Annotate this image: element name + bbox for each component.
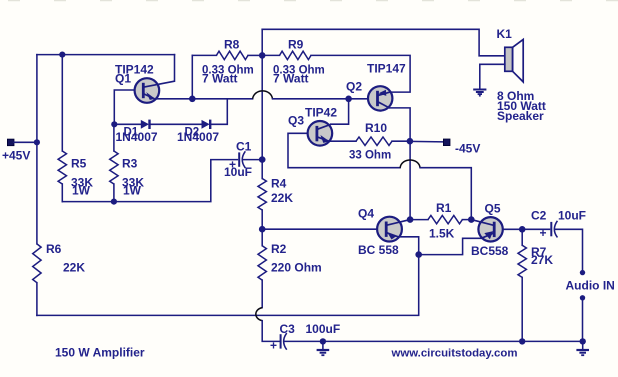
diode D2	[151, 99, 228, 129]
svg-text:R2: R2	[271, 242, 287, 256]
wire R2 down to hop	[261, 280, 263, 308]
node +45V rail	[34, 139, 40, 145]
wire R4 to R2	[261, 210, 263, 246]
svg-text:10uF: 10uF	[224, 165, 252, 179]
transistor Q5 BC558	[471, 217, 503, 241]
wire Q1 emitter line to Q2 base	[154, 98, 253, 100]
svg-text:BC 558: BC 558	[358, 243, 399, 257]
node R1 right / Q5 collector	[468, 216, 475, 223]
node R5 top	[59, 52, 65, 58]
hop over feedback rail	[256, 308, 262, 321]
node audio ground	[580, 338, 586, 344]
svg-text:Audio IN: Audio IN	[566, 279, 615, 293]
svg-text:+45V: +45V	[2, 149, 30, 163]
node Q4 base tee	[259, 226, 266, 233]
transistor Q4 BC558	[377, 217, 410, 242]
wire center rail top	[261, 29, 263, 55]
svg-text:Q2: Q2	[346, 80, 362, 94]
transistor Q3 TIP42	[308, 121, 333, 146]
wire Q4 base from center rail	[262, 228, 377, 230]
ground at audio in	[576, 341, 589, 355]
wire to R1 right node	[420, 168, 471, 220]
wire Q2 collector to R10 node	[390, 108, 411, 220]
svg-text:1N4007: 1N4007	[177, 130, 219, 144]
svg-text:1W: 1W	[123, 184, 142, 198]
svg-text:R1: R1	[436, 201, 452, 215]
wire Q5 base to C2 node	[503, 228, 522, 230]
node R1 left	[407, 216, 414, 223]
capacitor C2	[522, 221, 582, 270]
resistor R1	[410, 219, 428, 221]
wire left rail below R6	[36, 283, 38, 316]
svg-text:7 Watt: 7 Watt	[273, 72, 309, 86]
svg-text:+: +	[270, 339, 277, 353]
svg-text:www.circuitstoday.com: www.circuitstoday.com	[391, 348, 518, 360]
svg-text:Q5: Q5	[485, 202, 501, 216]
wire Q2 base node to Q3 collector	[331, 99, 349, 124]
wire left rail vertical	[36, 55, 38, 244]
wire top output rail	[262, 29, 505, 56]
diode D1	[114, 120, 149, 129]
node Q2 base	[345, 96, 352, 103]
svg-text:1N4007: 1N4007	[116, 130, 158, 144]
node Q5 base / C2 / R7	[519, 226, 526, 233]
wire bottom line C3 to audio ground	[284, 340, 583, 342]
svg-text:C3: C3	[280, 322, 296, 336]
transistor Q1 TIP142	[135, 78, 175, 103]
svg-text:+: +	[540, 226, 547, 240]
resistor R7	[521, 229, 523, 245]
wire hop to C3 corner	[262, 321, 280, 342]
resistor R3	[113, 124, 115, 151]
node R3 bottom	[111, 199, 117, 205]
node -45V terminal	[443, 139, 450, 146]
svg-text:R4: R4	[271, 177, 287, 191]
wire R5/R3 bottom to C1	[62, 160, 237, 202]
wire R8 feed vertical	[191, 55, 193, 98]
svg-text:Q3: Q3	[288, 114, 304, 128]
resistor R8	[216, 51, 248, 59]
capacitor C3	[281, 334, 287, 349]
svg-text:R3: R3	[122, 157, 138, 171]
hop over center rail	[253, 91, 273, 99]
wire center rail (output node down to C1 node)	[261, 55, 263, 178]
resistor R4	[258, 179, 266, 211]
wire R10 node to -45V	[410, 140, 444, 143]
resistor R6	[33, 244, 41, 283]
svg-text:Q4: Q4	[358, 207, 374, 221]
resistor R10	[329, 140, 356, 142]
svg-text:R8: R8	[224, 38, 240, 52]
capacitor C1	[239, 152, 262, 167]
svg-text:220 Ohm: 220 Ohm	[271, 261, 322, 275]
resistor R5	[61, 55, 63, 151]
node Q4 emitter	[415, 251, 422, 258]
svg-text:Speaker: Speaker	[497, 109, 544, 123]
node audio in upper terminal	[580, 270, 585, 275]
resistor R2	[258, 246, 266, 280]
node R10 right	[407, 138, 414, 145]
svg-text:22K: 22K	[271, 191, 293, 205]
svg-text:C1: C1	[236, 140, 252, 154]
node audio in lower terminal	[580, 295, 585, 300]
ground speaker	[473, 90, 486, 96]
wire Q4 emitter to node	[398, 237, 418, 255]
svg-text:-45V: -45V	[455, 142, 480, 156]
hop over Q2 collector vertical	[400, 160, 420, 168]
svg-text:27K: 27K	[531, 253, 553, 267]
svg-text:1.5K: 1.5K	[429, 227, 455, 241]
wire Q1 base	[114, 90, 143, 124]
speaker K1	[480, 39, 523, 88]
svg-text:R9: R9	[288, 38, 304, 52]
node C3 ground	[320, 338, 326, 344]
svg-text:R10: R10	[365, 121, 387, 135]
transistor Q2 TIP147	[368, 86, 392, 110]
svg-text:10uF: 10uF	[558, 209, 586, 223]
svg-text:33 Ohm: 33 Ohm	[349, 150, 391, 162]
node output (R8/R9)	[259, 52, 266, 59]
svg-text:7 Watt: 7 Watt	[202, 72, 238, 86]
svg-text:BC558: BC558	[471, 244, 509, 258]
svg-text:C2: C2	[531, 209, 547, 223]
node R7 bottom	[519, 338, 525, 344]
wire Q3 base	[288, 133, 400, 167]
svg-text:TIP42: TIP42	[305, 106, 337, 120]
wire Q1 collector drop	[174, 55, 176, 82]
ground at C3	[317, 341, 330, 355]
node +45V terminal	[7, 139, 14, 146]
svg-text:150 W Amplifier: 150 W Amplifier	[55, 346, 145, 360]
node C1 output	[259, 156, 266, 163]
svg-text:22K: 22K	[63, 261, 85, 275]
node Q1 base / D1	[111, 121, 117, 127]
svg-text:R6: R6	[46, 242, 62, 256]
wire +45V to rail	[14, 141, 37, 143]
resistor R9	[262, 54, 279, 56]
wire emitter node to Q5 emitter	[419, 238, 482, 254]
node Q1 emitter	[189, 96, 196, 103]
svg-text:K1: K1	[497, 27, 513, 41]
svg-text:100uF: 100uF	[306, 322, 341, 336]
svg-text:1W: 1W	[72, 184, 91, 198]
wire bottom feedback rail	[37, 255, 419, 316]
wire top-left horizontal +45V rail	[37, 54, 175, 56]
svg-text:TIP147: TIP147	[367, 62, 406, 76]
svg-text:Q1: Q1	[115, 72, 131, 86]
svg-text:R5: R5	[71, 157, 87, 171]
wire audio lower to ground rail	[582, 300, 584, 341]
